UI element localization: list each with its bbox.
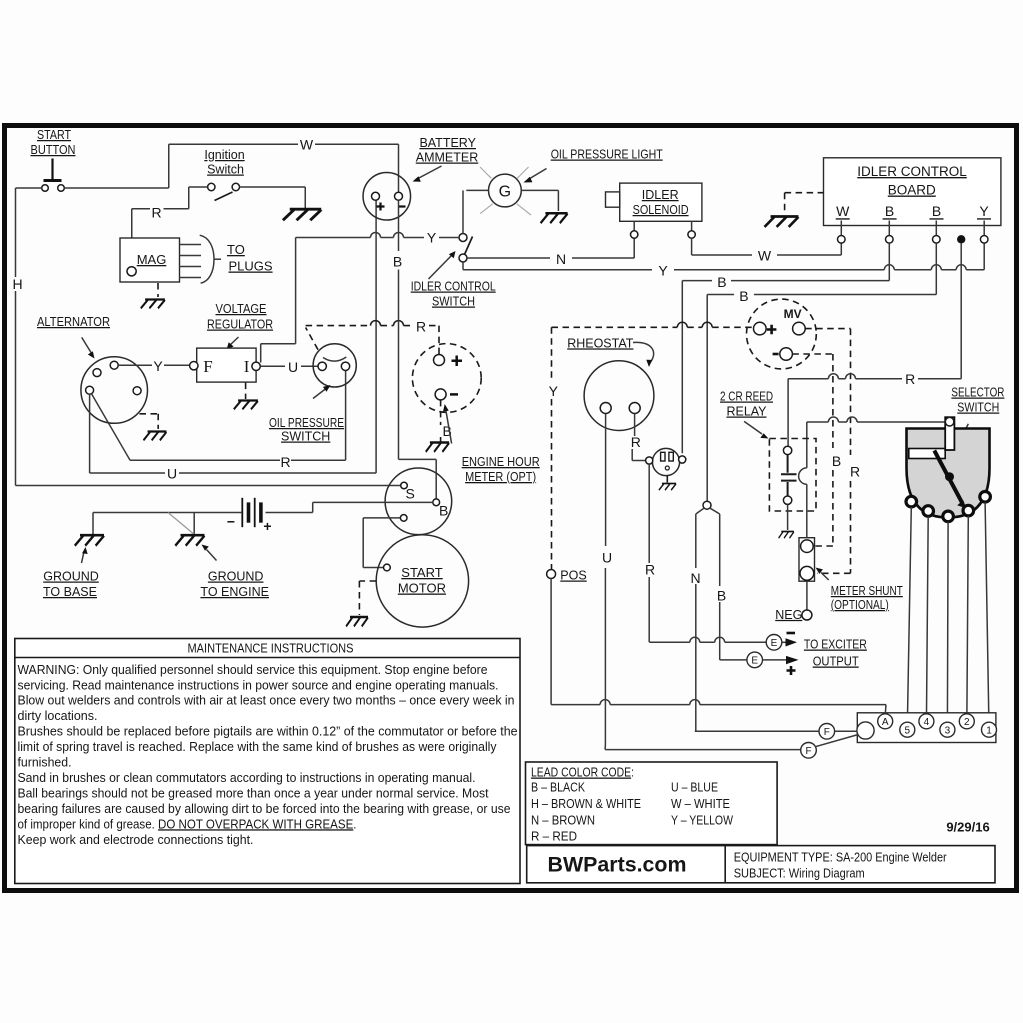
svg-text:IDLER: IDLER xyxy=(642,188,679,202)
svg-text:R: R xyxy=(645,562,655,578)
svg-text:H: H xyxy=(12,276,22,292)
svg-text:LEAD COLOR CODE:: LEAD COLOR CODE: xyxy=(531,765,634,780)
svg-text:N – BROWN: N – BROWN xyxy=(531,813,595,828)
svg-text:SOLENOID: SOLENOID xyxy=(633,203,689,217)
svg-text:BOARD: BOARD xyxy=(888,183,936,198)
svg-text:B: B xyxy=(832,453,841,469)
svg-text:Brushes should be replaced bef: Brushes should be replaced before pigtai… xyxy=(18,724,518,739)
svg-text:B: B xyxy=(717,588,726,604)
svg-text:TO EXCITER: TO EXCITER xyxy=(804,637,867,652)
svg-text:dirty locations.: dirty locations. xyxy=(18,708,98,723)
svg-text:BUTTON: BUTTON xyxy=(31,143,76,157)
svg-text:OIL PRESSURE LIGHT: OIL PRESSURE LIGHT xyxy=(551,148,663,162)
svg-text:Keep work and electrode connec: Keep work and electrode connections tigh… xyxy=(18,832,254,847)
svg-text:H – BROWN & WHITE: H – BROWN & WHITE xyxy=(531,796,641,811)
svg-text:RHEOSTAT: RHEOSTAT xyxy=(567,336,634,350)
svg-text:of improper kind of grease. DO: of improper kind of grease. DO NOT OVERP… xyxy=(18,816,357,831)
svg-text:SWITCH: SWITCH xyxy=(957,401,999,415)
svg-text:R – RED: R – RED xyxy=(531,829,577,844)
svg-text:servicing. Read maintenance in: servicing. Read maintenance instructions… xyxy=(18,677,499,692)
svg-text:Ignition: Ignition xyxy=(204,148,244,162)
svg-text:NEG: NEG xyxy=(775,608,802,622)
svg-text:N: N xyxy=(556,251,566,267)
svg-text:4: 4 xyxy=(924,717,930,728)
svg-text:F: F xyxy=(805,746,811,757)
svg-text:I: I xyxy=(244,357,250,376)
svg-text:BATTERY: BATTERY xyxy=(419,136,476,150)
svg-text:E: E xyxy=(751,655,758,666)
svg-text:U – BLUE: U – BLUE xyxy=(671,780,718,795)
svg-text:OUTPUT: OUTPUT xyxy=(813,654,859,669)
svg-text:Y: Y xyxy=(427,230,437,246)
svg-text:Blow out welders and controls: Blow out welders and controls with air a… xyxy=(18,693,515,708)
svg-text:RELAY: RELAY xyxy=(726,405,767,419)
svg-text:W – WHITE: W – WHITE xyxy=(671,796,730,811)
svg-text:GROUND: GROUND xyxy=(208,570,264,584)
svg-text:−: − xyxy=(227,514,235,530)
svg-text:GROUND: GROUND xyxy=(43,570,99,584)
svg-text:3: 3 xyxy=(945,726,951,737)
svg-text:BWParts.com: BWParts.com xyxy=(548,854,687,877)
svg-text:+: + xyxy=(263,518,271,534)
svg-text:Ball bearings should not be gr: Ball bearings should not be greased more… xyxy=(18,785,489,800)
svg-text:U: U xyxy=(288,359,298,375)
svg-text:IDLER CONTROL: IDLER CONTROL xyxy=(411,280,496,294)
svg-text:U: U xyxy=(602,550,612,566)
svg-text:START: START xyxy=(401,565,442,580)
svg-text:B: B xyxy=(932,203,941,219)
svg-text:R: R xyxy=(905,371,915,387)
svg-text:S: S xyxy=(406,486,415,502)
svg-text:Sand in brushes or clean commu: Sand in brushes or clean commutators acc… xyxy=(18,770,476,785)
svg-text:A: A xyxy=(882,717,889,728)
svg-text:IDLER CONTROL: IDLER CONTROL xyxy=(857,164,967,179)
svg-text:ALTERNATOR: ALTERNATOR xyxy=(37,315,110,329)
svg-text:R: R xyxy=(631,434,641,450)
svg-text:EQUIPMENT TYPE: SA-200 Engine: EQUIPMENT TYPE: SA-200 Engine Welder xyxy=(734,851,947,865)
svg-text:B: B xyxy=(885,203,894,219)
svg-text:(OPTIONAL): (OPTIONAL) xyxy=(831,598,889,612)
svg-text:W: W xyxy=(836,203,850,219)
svg-text:F: F xyxy=(824,727,830,738)
svg-text:Y: Y xyxy=(153,358,163,374)
svg-text:METER SHUNT: METER SHUNT xyxy=(831,584,903,598)
svg-text:B: B xyxy=(439,503,448,519)
svg-text:R: R xyxy=(280,454,290,470)
svg-text:SWITCH: SWITCH xyxy=(432,295,475,309)
svg-text:ENGINE HOUR: ENGINE HOUR xyxy=(462,454,540,469)
svg-text:1: 1 xyxy=(986,726,992,737)
svg-text:SWITCH: SWITCH xyxy=(281,430,330,444)
svg-text:U: U xyxy=(167,466,177,482)
svg-text:B: B xyxy=(739,288,748,304)
svg-text:9/29/16: 9/29/16 xyxy=(946,820,989,835)
svg-text:VOLTAGE: VOLTAGE xyxy=(216,302,267,316)
svg-text:furnished.: furnished. xyxy=(18,755,72,770)
svg-text:POS: POS xyxy=(560,569,586,583)
svg-text:limit of spring travel is reac: limit of spring travel is reached. Repla… xyxy=(18,739,497,754)
svg-text:METER (OPT): METER (OPT) xyxy=(465,469,536,484)
svg-text:TO BASE: TO BASE xyxy=(43,585,97,599)
svg-text:Y: Y xyxy=(658,263,668,279)
svg-text:R: R xyxy=(416,319,426,335)
svg-text:PLUGS: PLUGS xyxy=(229,259,273,274)
svg-text:MV: MV xyxy=(784,307,802,321)
svg-text:MAINTENANCE INSTRUCTIONS: MAINTENANCE INSTRUCTIONS xyxy=(188,642,354,656)
svg-text:SELECTOR: SELECTOR xyxy=(951,386,1004,400)
svg-text:Y: Y xyxy=(979,203,989,219)
svg-text:G: G xyxy=(499,184,511,201)
svg-text:W: W xyxy=(300,137,314,153)
svg-text:B – BLACK: B – BLACK xyxy=(531,780,585,795)
svg-text:Y: Y xyxy=(549,383,559,399)
svg-text:W: W xyxy=(758,248,772,264)
svg-text:TO ENGINE: TO ENGINE xyxy=(200,585,269,599)
svg-text:Y – YELLOW: Y – YELLOW xyxy=(671,813,734,828)
svg-text:MOTOR: MOTOR xyxy=(398,581,446,596)
svg-text:R: R xyxy=(850,464,860,480)
svg-text:REGULATOR: REGULATOR xyxy=(207,318,273,332)
svg-text:AMMETER: AMMETER xyxy=(416,151,479,165)
svg-text:SUBJECT: Wiring Diagram: SUBJECT: Wiring Diagram xyxy=(734,867,865,881)
svg-text:B: B xyxy=(717,274,726,290)
svg-text:R: R xyxy=(151,205,161,221)
svg-text:OIL PRESSURE: OIL PRESSURE xyxy=(269,416,344,430)
svg-text:5: 5 xyxy=(905,726,911,737)
svg-text:E: E xyxy=(771,638,778,649)
svg-text:F: F xyxy=(203,357,212,376)
svg-text:bearing failures are caused by: bearing failures are caused by allowing … xyxy=(18,801,511,816)
svg-text:TO: TO xyxy=(227,242,245,257)
svg-text:START: START xyxy=(37,128,71,142)
svg-text:N: N xyxy=(691,570,701,586)
svg-text:2 CR REED: 2 CR REED xyxy=(720,390,773,404)
svg-text:MAG: MAG xyxy=(137,252,167,267)
svg-text:2: 2 xyxy=(964,717,970,728)
svg-text:WARNING: Only qualified perso: WARNING: Only qualified personnel should… xyxy=(18,662,488,677)
svg-text:B: B xyxy=(393,254,402,270)
svg-text:Switch: Switch xyxy=(207,163,244,177)
